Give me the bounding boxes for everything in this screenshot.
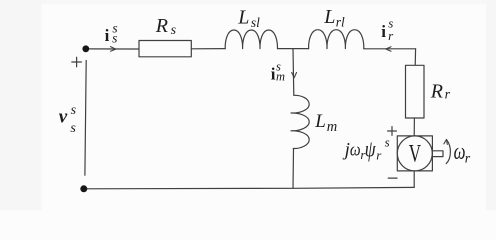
svg-text:s: s (385, 134, 390, 149)
svg-text:ω: ω (454, 139, 466, 164)
svg-text:s: s (71, 103, 77, 118)
svg-text:v: v (59, 107, 68, 128)
svg-text:i: i (381, 22, 386, 41)
svg-text:m: m (276, 70, 285, 84)
svg-text:L: L (323, 6, 335, 28)
svg-text:V: V (409, 139, 422, 167)
svg-text:i: i (271, 65, 276, 84)
svg-text:ψ: ψ (365, 137, 377, 162)
svg-text:R: R (155, 15, 168, 37)
svg-text:s: s (171, 23, 177, 38)
svg-text:s: s (70, 121, 76, 136)
svg-text:i: i (105, 26, 110, 45)
svg-text:ω: ω (350, 139, 361, 160)
svg-text:r: r (445, 88, 451, 103)
svg-text:L: L (314, 111, 326, 132)
svg-text:L: L (237, 7, 249, 29)
svg-text:r: r (465, 152, 471, 167)
svg-text:rl: rl (336, 15, 345, 30)
svg-text:s: s (112, 31, 117, 46)
svg-text:R: R (430, 81, 443, 103)
svg-text:m: m (327, 119, 337, 135)
svg-text:sl: sl (251, 15, 260, 30)
